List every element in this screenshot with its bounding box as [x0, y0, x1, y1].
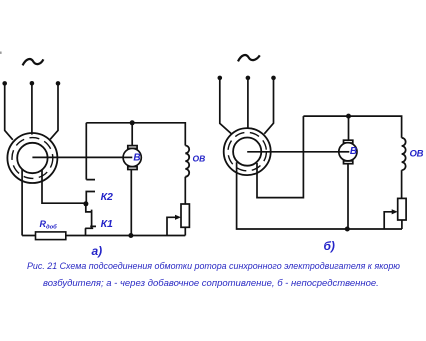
wire shaft end inside B (a)	[123, 156, 133, 158]
terminal L2 (circuit a)	[30, 81, 35, 86]
wire B top lead (a)	[131, 123, 133, 146]
rheostat wiper arm (b)	[384, 212, 392, 229]
wire B bottom lead (b)	[347, 163, 349, 229]
junction node top bus / B armature (a)	[130, 120, 135, 125]
wire phase L3 to stator (b)	[264, 78, 273, 134]
wire bottom bus (a)	[22, 235, 185, 237]
wire OB to rheostat (a)	[184, 177, 186, 204]
svg-text:В: В	[133, 152, 140, 163]
AC supply symbol ~ (circuit a)	[23, 59, 44, 65]
svg-text:а): а)	[92, 244, 103, 258]
junction node K2/rotor lead	[83, 201, 88, 206]
svg-text:ОВ: ОВ	[410, 149, 424, 160]
svg-text:б): б)	[324, 239, 335, 253]
svg-text:Рис. 21 Схема подсоединения об: Рис. 21 Схема подсоединения обмотки рото…	[27, 261, 400, 272]
junction node bottom bus / B armature (b)	[345, 227, 350, 232]
terminal L3 (circuit b)	[271, 76, 276, 81]
terminal L2 (circuit b)	[246, 76, 251, 81]
motor M1 stator outer circle (a)	[7, 133, 57, 183]
motor M2 stator outer circle (b)	[224, 128, 271, 175]
rheostat wiper arm (a)	[167, 217, 176, 235]
wire phase L2 to stator (b)	[247, 78, 249, 128]
exciter armature B (b): brush top	[344, 140, 353, 143]
terminal L1 (circuit a)	[2, 81, 7, 86]
contact K2 (normally open)	[86, 192, 95, 205]
terminal L1 (circuit b)	[218, 76, 223, 81]
contact K1 (normally open)	[85, 204, 96, 236]
motor M1 rotor inner circle (a)	[17, 143, 47, 173]
wire top bus (b)	[303, 116, 401, 138]
wire rotor lead 1 (a)	[21, 169, 23, 235]
resistor Rdob body	[36, 232, 66, 240]
svg-text:В: В	[350, 146, 357, 157]
junction node bottom bus / B armature (a)	[128, 233, 133, 238]
wire rotor lead 2 to contact node (a)	[42, 170, 86, 203]
svg-text:К2: К2	[101, 191, 113, 203]
exciter armature B (a): circle	[123, 148, 141, 166]
wire rheostat bottom lead (b)	[401, 220, 403, 229]
wire shaft end inside B (b)	[338, 151, 349, 153]
wire OB to rheostat (b)	[401, 170, 403, 198]
rheostat body (b)	[398, 198, 406, 220]
motor M2 stator winding dashed circle (b)	[228, 132, 266, 170]
svg-text:ОВ: ОВ	[193, 154, 206, 164]
rheostat wiper arrowhead (b)	[392, 209, 398, 214]
wire top bus (a)	[86, 123, 185, 146]
exciter armature B (a): brush bottom	[128, 167, 137, 170]
motor M2 rotor inner circle (b)	[233, 138, 261, 166]
stray mark left edge	[0, 52, 2, 54]
AC supply symbol ~ (circuit b)	[238, 55, 260, 61]
rheostat wiper arrowhead (a)	[175, 215, 181, 220]
field winding OB coil (a)	[185, 146, 189, 177]
exciter armature B (b): circle	[339, 143, 357, 161]
svg-text:Rдоб: Rдоб	[40, 219, 58, 231]
exciter armature B (b): brush bottom	[344, 161, 353, 164]
wire phase L3 to stator (a)	[50, 83, 58, 139]
wire B top lead (b)	[348, 116, 350, 140]
junction node top bus / B armature (b)	[346, 114, 351, 119]
wire rotor shaft line to exciter B (a)	[32, 156, 132, 158]
field winding OB coil (b)	[402, 138, 406, 170]
wire rotor shaft line to exciter B (b)	[247, 151, 348, 153]
wire rotor lead 2 to top bus (b)	[257, 116, 303, 198]
motor M1 stator winding dashed circle (a)	[12, 138, 53, 179]
wire rotor lead 1 (b)	[237, 162, 402, 229]
svg-text:К1: К1	[101, 218, 113, 230]
wire phase L1 to stator (a)	[5, 83, 13, 139]
rheostat body (a)	[181, 204, 189, 227]
wire phase L1 to stator (b)	[220, 78, 232, 134]
wire B bottom lead (a)	[130, 169, 132, 235]
wire phase L2 to stator (a)	[31, 83, 33, 134]
wire rheostat bottom lead (a)	[184, 227, 186, 235]
wire K2 upper lead	[86, 123, 95, 180]
terminal L3 (circuit a)	[56, 81, 61, 86]
svg-text:возбудителя; а - через добавоч: возбудителя; а - через добавочное сопрот…	[43, 278, 379, 289]
exciter armature B (a): brush top	[128, 146, 137, 149]
